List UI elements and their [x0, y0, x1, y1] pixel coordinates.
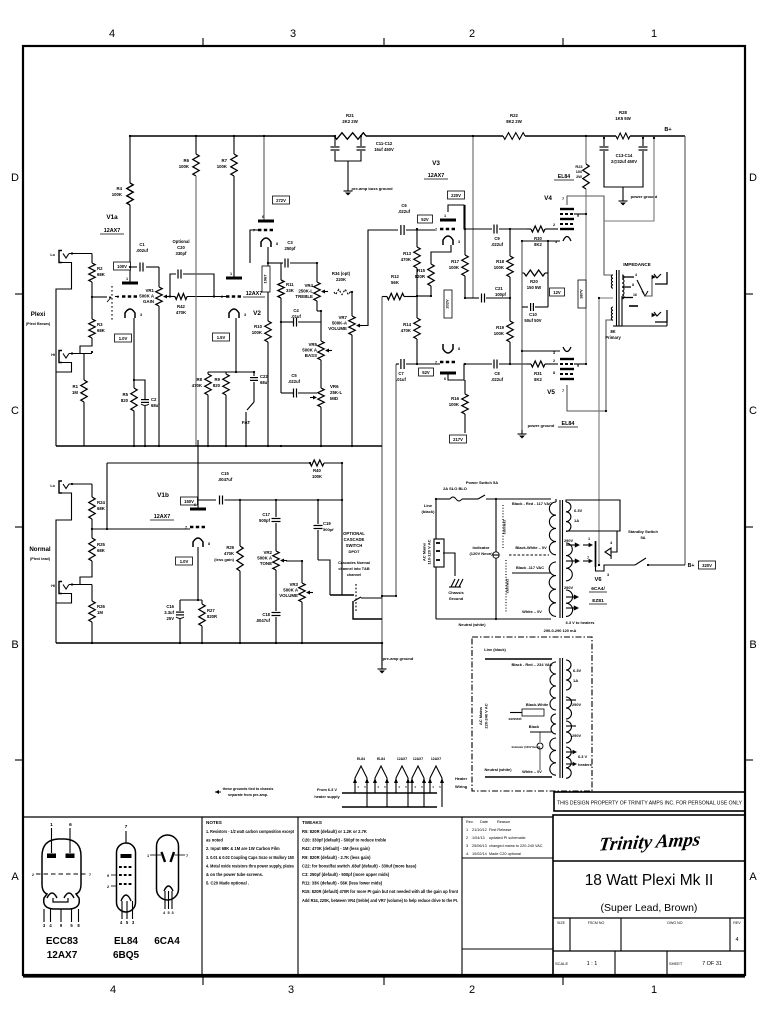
- wire 220 neutral: [485, 776, 552, 778]
- svg-text:.022uf: .022uf: [288, 379, 301, 384]
- wire R17 bottom to C21 node: [464, 276, 466, 298]
- resistor R30: [527, 228, 531, 230]
- svg-text:33K: 33K: [286, 288, 295, 293]
- svg-text:EZ81: EZ81: [592, 598, 604, 604]
- svg-text:7 OF 31: 7 OF 31: [702, 961, 722, 967]
- svg-text:Chassis: Chassis: [448, 590, 464, 595]
- wire C2 branch: [134, 380, 145, 399]
- label 202V box: [444, 290, 452, 318]
- svg-text:2. Input 68K & 1M are 1W Carbo: 2. Input 68K & 1M are 1W Carbon Film: [206, 846, 280, 851]
- svg-text:SWITCH: SWITCH: [346, 543, 363, 548]
- connect dotted line upper: [502, 505, 504, 548]
- resistor R12: [382, 296, 387, 298]
- svg-text:C6: C6: [401, 203, 407, 208]
- wire tone out drop A: [381, 297, 383, 666]
- svg-text:& on the power tube screens.: & on the power tube screens.: [206, 872, 263, 877]
- pre-amp buss ground symbol: [344, 187, 353, 196]
- svg-text:500K A: 500K A: [302, 348, 318, 353]
- svg-text:25K-L: 25K-L: [330, 390, 343, 395]
- svg-text:500pf: 500pf: [259, 518, 271, 523]
- svg-text:56K: 56K: [391, 280, 400, 285]
- divider tweaks-rev: [461, 817, 463, 975]
- pentode V4: [560, 209, 574, 241]
- svg-text:V5: V5: [547, 389, 555, 396]
- wire R18 bottom: [509, 277, 511, 298]
- input jack Normal Lo: [59, 481, 69, 493]
- transformer PT2 core: [559, 658, 561, 778]
- input jack Plexi Hi: [59, 351, 69, 363]
- svg-text:7: 7: [562, 389, 564, 393]
- transformer PT primary: [549, 502, 556, 555]
- wire C22 to FAT switch: [253, 382, 255, 402]
- tube base 6CA4 cathode: [164, 886, 173, 891]
- svg-text:272V: 272V: [276, 198, 286, 203]
- svg-text:6.3V: 6.3V: [573, 668, 582, 673]
- svg-text:820: 820: [121, 398, 129, 403]
- divider notes-tweaks: [297, 817, 299, 975]
- wire jack Lo tip: [69, 253, 92, 255]
- wire R5 to rail: [133, 411, 135, 446]
- svg-text:7: 7: [89, 873, 91, 877]
- svg-text:C3: C3: [287, 240, 293, 245]
- svg-text:1M: 1M: [97, 610, 103, 615]
- triode V2a: [221, 272, 246, 318]
- transformer PT2 HT winding: [566, 697, 572, 719]
- svg-text:7: 7: [587, 556, 589, 560]
- svg-text:2K2 2W: 2K2 2W: [342, 119, 358, 124]
- top border ticks: [202, 38, 204, 46]
- svg-text:1: 1: [50, 822, 53, 828]
- voltage box 1.0V V1a cathode: [115, 334, 132, 342]
- triode V2b cathode follower: [253, 215, 278, 247]
- svg-text:.002uf: .002uf: [136, 248, 149, 253]
- wire V1a cathode: [133, 318, 135, 388]
- wire R24 to R25: [91, 519, 93, 538]
- wire VR6 to rail: [320, 407, 322, 446]
- svg-text:3.3uf: 3.3uf: [164, 610, 174, 615]
- svg-text:Normal: Normal: [29, 546, 51, 553]
- capacitor C22: [253, 372, 255, 376]
- tube base EL84 grids: [119, 866, 133, 868]
- svg-text:From 6.3 V: From 6.3 V: [317, 787, 337, 792]
- svg-text:R17: R17: [451, 259, 459, 264]
- svg-text:Wiring: Wiring: [455, 784, 468, 789]
- transformer OT secondary winding: [622, 275, 624, 299]
- transformer PT2 primary: [550, 662, 556, 710]
- svg-text:Neutral (white): Neutral (white): [458, 622, 486, 627]
- wire VR3 top: [286, 561, 302, 566]
- svg-text:SHEET: SHEET: [669, 961, 683, 966]
- wire V5 pin9 screen: [574, 363, 586, 365]
- svg-text:R1: R1: [73, 384, 79, 389]
- svg-text:Lo: Lo: [50, 484, 55, 488]
- capacitor C10: [522, 306, 528, 308]
- svg-text:REV: REV: [733, 921, 741, 925]
- svg-text:290V: 290V: [572, 702, 581, 707]
- svg-text:heater supply: heater supply: [314, 794, 340, 799]
- wire V3a cathode to R15: [431, 245, 451, 264]
- svg-text:B: B: [749, 639, 756, 651]
- svg-text:R9: 820R (default) - 2.7K (les: R9: 820R (default) - 2.7K (less gain): [302, 855, 371, 860]
- svg-text:1: 1: [651, 984, 657, 996]
- wire R12 to PI node: [404, 296, 417, 298]
- indicator neon: [493, 552, 499, 558]
- svg-text:6CA4: 6CA4: [154, 936, 180, 947]
- svg-text:Indicator (120V Neon): Indicator (120V Neon): [512, 745, 541, 749]
- switch FAT: [247, 402, 254, 410]
- svg-text:R21: R21: [346, 113, 354, 118]
- wire rail drop to PI: [472, 136, 474, 298]
- svg-text:Black: Black: [529, 724, 540, 729]
- svg-text:.022uf: .022uf: [491, 242, 504, 247]
- svg-text:Add R34, 220K, between VR4 (t: Add R34, 220K, between VR4 (treble) and …: [302, 898, 458, 903]
- svg-text:V2: V2: [253, 310, 261, 317]
- potentiometer VR5 bass: [320, 311, 322, 341]
- resistor R40: [310, 460, 324, 466]
- svg-text:12AX7: 12AX7: [154, 514, 170, 520]
- svg-text:25V: 25V: [167, 616, 175, 621]
- svg-text:6: 6: [444, 377, 446, 381]
- wire V4 cathode: [522, 240, 560, 242]
- svg-text:1967: 1967: [262, 274, 267, 284]
- svg-text:100pf: 100pf: [495, 292, 507, 297]
- svg-text:TWEAKS: TWEAKS: [302, 820, 322, 825]
- svg-text:C2: C2: [151, 397, 157, 402]
- svg-text:C20: 330pf (default) - 500pf t: C20: 330pf (default) - 500pf to reduce t…: [302, 838, 387, 843]
- mains plug: [434, 539, 444, 567]
- svg-text:100K: 100K: [252, 330, 263, 335]
- rev area line 2: [462, 948, 553, 950]
- size row dividers: [569, 918, 571, 951]
- svg-text:2: 2: [469, 984, 475, 996]
- svg-text:820R: 820R: [415, 274, 426, 279]
- svg-text:R26: R26: [97, 604, 105, 609]
- wire OT secondary taps: [622, 276, 634, 278]
- transformer PT2 heater winding: [566, 747, 571, 778]
- switch standby: [635, 558, 646, 565]
- svg-text:12AX7: 12AX7: [428, 173, 444, 179]
- wire black-white dashed: [509, 554, 549, 556]
- svg-text:8: 8: [632, 283, 634, 287]
- svg-text:White – 0V: White – 0V: [522, 769, 542, 774]
- capacitor C21: [465, 297, 479, 299]
- svg-text:power ground: power ground: [528, 423, 555, 428]
- svg-text:.022uf: .022uf: [491, 377, 504, 382]
- svg-text:387V: 387V: [578, 289, 583, 299]
- svg-text:320V: 320V: [702, 563, 712, 568]
- svg-text:5. C20 Made optional .: 5. C20 Made optional .: [206, 881, 249, 886]
- svg-text:3: 3: [553, 351, 555, 355]
- resistor R23: [585, 136, 587, 164]
- voltage box 320V: [699, 561, 716, 569]
- wire VR7 bottom: [351, 335, 353, 446]
- resistor R3: [89, 319, 95, 338]
- svg-text:470K: 470K: [192, 383, 203, 388]
- power ground symbol V4V5: [518, 430, 527, 439]
- svg-text:.01uf: .01uf: [396, 377, 406, 382]
- transformer PT core: [559, 500, 561, 618]
- svg-text:6.3 V to heaters: 6.3 V to heaters: [566, 620, 595, 625]
- svg-text:VR3: VR3: [289, 582, 298, 587]
- svg-text:R28: R28: [619, 110, 627, 115]
- svg-text:White – 0V: White – 0V: [522, 609, 542, 614]
- voltage box 12V: [550, 288, 565, 296]
- wire R40 right: [324, 462, 342, 464]
- svg-text:EL84: EL84: [114, 936, 138, 947]
- tube base ECC83 top pins: [51, 828, 53, 853]
- svg-text:9: 9: [107, 874, 109, 878]
- capacitor C13: [603, 138, 605, 146]
- resistor R29: [239, 500, 241, 546]
- svg-text:R6: R6: [184, 158, 190, 163]
- svg-text:202V: 202V: [444, 299, 449, 309]
- svg-text:connect: connect: [509, 717, 523, 721]
- svg-text:Made C20 optional: Made C20 optional: [489, 852, 521, 856]
- capacitor C9: [493, 225, 495, 234]
- input jack Plexi Lo: [59, 251, 69, 263]
- svg-text:R7: R7: [222, 158, 228, 163]
- wire PT2 taps: [566, 699, 576, 701]
- svg-text:7: 7: [186, 854, 188, 858]
- svg-text:9: 9: [577, 214, 579, 218]
- potentiometer VR6 mid: [310, 388, 324, 407]
- svg-text:2: 2: [435, 228, 437, 232]
- TWEAKS text block: [302, 820, 459, 903]
- wire cathode split: [180, 599, 202, 601]
- svg-text:8K2: 8K2: [534, 242, 542, 247]
- wire black tap: [512, 572, 551, 574]
- resistor R18: [509, 229, 511, 256]
- svg-text:THIS DESIGN PROPERTY OF TRINIT: THIS DESIGN PROPERTY OF TRINITY AMPS INC…: [557, 801, 742, 807]
- svg-text:5: 5: [167, 911, 169, 915]
- svg-text:Black - Red - 117 VAC: Black - Red - 117 VAC: [512, 501, 552, 506]
- rectifier V6 bar: [595, 541, 597, 567]
- svg-text:VOLUME: VOLUME: [328, 326, 347, 331]
- wire Plexi Hi sleeve: [56, 363, 72, 373]
- svg-text:C11-C12: C11-C12: [376, 141, 393, 146]
- tube base ECC83 plates: [47, 854, 56, 859]
- input jack Normal Hi: [59, 582, 69, 594]
- svg-text:1.0V: 1.0V: [180, 559, 189, 564]
- svg-text:First Release: First Release: [489, 828, 511, 832]
- transformer OT core: [616, 270, 618, 326]
- svg-text:Lo: Lo: [50, 253, 55, 257]
- svg-text:EL84: EL84: [558, 174, 571, 180]
- svg-text:C: C: [749, 405, 757, 417]
- resistor R14: [416, 296, 418, 318]
- svg-text:B+: B+: [664, 127, 672, 133]
- wire mains bottom: [435, 567, 437, 619]
- svg-text:R13: R13: [403, 251, 411, 256]
- svg-text:V3: V3: [432, 160, 440, 167]
- svg-text:C15: C15: [221, 471, 229, 476]
- svg-text:V1a: V1a: [106, 214, 118, 221]
- svg-text:Plexi: Plexi: [31, 311, 46, 318]
- wire rail drop left: [106, 463, 108, 529]
- wire C13-C14 bottom box: [604, 151, 643, 187]
- svg-text:ECC83: ECC83: [46, 936, 79, 947]
- wire V1b cathode: [197, 547, 199, 600]
- wire VR1 bottom to ground rail: [158, 306, 160, 446]
- wire OT secondary return: [622, 296, 667, 326]
- wire V2b cathode out: [267, 247, 269, 321]
- Trinity Amps script logo: [598, 829, 702, 855]
- wire VR2 to C18: [275, 570, 277, 611]
- svg-text:2: 2: [553, 359, 555, 363]
- voltage box 1.0V V1b: [176, 557, 193, 565]
- svg-text:110-120 V AC: 110-120 V AC: [427, 539, 432, 564]
- svg-text:68K: 68K: [97, 328, 106, 333]
- wire preamp ground rail: [56, 445, 382, 447]
- wire C19 to volume node: [318, 560, 330, 595]
- svg-text:8K: 8K: [610, 329, 615, 334]
- svg-text:52V: 52V: [422, 370, 430, 375]
- svg-text:Cascades Normal: Cascades Normal: [338, 561, 370, 565]
- pre-amp ground symbol: [378, 665, 387, 674]
- transformer PT HT winding: [566, 543, 572, 581]
- svg-text:R29: R29: [226, 545, 234, 550]
- svg-text:heaters: heaters: [578, 762, 592, 767]
- wire VR5 to VR6: [320, 360, 322, 388]
- svg-text:C8: C8: [494, 371, 500, 376]
- wire R16 to 217V: [464, 414, 466, 433]
- wire mains top: [435, 499, 437, 539]
- switch cascade arm: [354, 597, 361, 601]
- svg-text:VR1: VR1: [145, 288, 154, 293]
- svg-text:Black -117 VAC: Black -117 VAC: [516, 565, 544, 570]
- resistor R13: [416, 229, 418, 247]
- wire HT tap upper arrow: [566, 544, 578, 546]
- resistor R6: [193, 154, 199, 176]
- wire grid feed V1a: [92, 296, 107, 298]
- svg-text:D: D: [11, 172, 19, 184]
- indicator neon 220: [537, 743, 543, 749]
- svg-text:VOLUME: VOLUME: [279, 593, 298, 598]
- wire R2 to R3: [91, 282, 93, 319]
- rectifier V6 plate 1: [583, 544, 591, 546]
- revision table text: [466, 820, 543, 856]
- wire R11 bottom: [280, 298, 282, 322]
- svg-text:50uf 50V: 50uf 50V: [524, 318, 541, 323]
- svg-text:470K: 470K: [224, 551, 234, 556]
- svg-text:DPDT: DPDT: [349, 549, 360, 554]
- resistor R34 optional: [334, 289, 350, 294]
- potentiometer VR1 500K-A GAIN: [139, 287, 170, 306]
- potentiometer VR7 volume: [328, 315, 363, 335]
- wire cascade to drop: [361, 597, 382, 599]
- svg-text:4.: 4.: [466, 852, 469, 856]
- svg-text:1: 1: [126, 277, 128, 281]
- speaker jack upper: [655, 272, 667, 284]
- svg-text:V6: V6: [594, 577, 602, 583]
- svg-text:290V: 290V: [572, 733, 581, 738]
- resistor R19: [509, 298, 511, 321]
- svg-text:3: 3: [466, 844, 468, 848]
- svg-text:290-0-290 120 mA: 290-0-290 120 mA: [544, 628, 577, 633]
- svg-text:2: 2: [107, 885, 109, 889]
- jack switch dashed line: [111, 286, 113, 322]
- svg-text:12AX7: 12AX7: [246, 291, 262, 297]
- wire 220 line: [485, 658, 552, 660]
- wire R10 to rail: [267, 342, 269, 446]
- svg-text:820: 820: [213, 383, 221, 388]
- svg-text:.01uf: .01uf: [291, 314, 301, 319]
- svg-text:changed mains to 220-240 VAC: changed mains to 220-240 VAC: [489, 844, 543, 848]
- capacitor C17: [275, 500, 277, 517]
- svg-text:R4: R4: [117, 186, 123, 191]
- resistor R25: [89, 538, 95, 561]
- svg-text:NOTES: NOTES: [206, 820, 222, 825]
- svg-text:R27: R27: [207, 608, 215, 613]
- svg-text:V1b: V1b: [157, 492, 169, 499]
- tube base EL84 bottom pins: [121, 901, 123, 919]
- svg-text:4: 4: [109, 28, 115, 40]
- heater symbol EL84 #2: [375, 766, 387, 807]
- svg-text:.0047uf: .0047uf: [218, 477, 233, 482]
- svg-text:220V: 220V: [451, 193, 461, 198]
- capacitor C2: [141, 399, 149, 401]
- svg-text:470K: 470K: [176, 310, 187, 315]
- svg-text:16: 16: [633, 293, 637, 297]
- fuse: [436, 498, 450, 500]
- potentiometer VR3 volume: [301, 566, 303, 583]
- voltage box 1.5V: [213, 333, 230, 341]
- svg-text:100K: 100K: [179, 164, 190, 169]
- svg-text:100V: 100V: [117, 264, 127, 269]
- wire B+ drop right side: [684, 136, 686, 565]
- svg-text:pre-amp ground: pre-amp ground: [383, 656, 414, 661]
- svg-text:8: 8: [208, 542, 210, 546]
- svg-text:C18: C18: [262, 612, 270, 617]
- svg-text:Heater: Heater: [455, 776, 468, 781]
- tube base ECC83 envelope: [42, 839, 81, 909]
- svg-text:R5: 820R (default) or 1.2K or: R5: 820R (default) or 1.2K or 2.7K: [302, 829, 367, 834]
- svg-text:100K: 100K: [449, 265, 460, 270]
- svg-text:A: A: [749, 871, 757, 883]
- speaker jack lower: [655, 310, 667, 322]
- switch impedance selector: [637, 280, 644, 294]
- capacitor C15: [219, 496, 221, 505]
- svg-text:52V: 52V: [421, 217, 429, 222]
- resistor R17: [464, 205, 466, 255]
- resistor R2: [89, 263, 95, 282]
- svg-text:R2: R2: [97, 266, 103, 271]
- capacitor C3: [284, 259, 286, 268]
- wire R7 to V2 plate: [233, 176, 235, 278]
- resistor R1: [81, 380, 87, 402]
- resistor R10: [265, 321, 271, 342]
- capacitor C11: [334, 136, 336, 146]
- wire V4 pin9 screen: [574, 213, 586, 215]
- rectifier V6 plate 7: [583, 560, 591, 562]
- chassis ground symbol: [449, 579, 463, 587]
- resistor R15: [428, 264, 434, 286]
- svg-text:updated PI schematic: updated PI schematic: [489, 836, 526, 840]
- label 1967 box: [262, 266, 270, 292]
- svg-text:100K: 100K: [449, 402, 460, 407]
- wire jack link: [666, 322, 668, 326]
- svg-text:12AX7: 12AX7: [47, 950, 78, 961]
- wire Plexi Lo sleeve: [56, 263, 72, 447]
- svg-text:10/02/14: 10/02/14: [472, 852, 487, 856]
- svg-text:220K: 220K: [336, 277, 346, 282]
- svg-text:AC Mains: AC Mains: [478, 706, 483, 725]
- svg-text:18 Watt Plexi Mk II: 18 Watt Plexi Mk II: [585, 872, 714, 889]
- switch cascade dashed: [355, 584, 357, 612]
- svg-text:C4: C4: [293, 308, 299, 313]
- wire R30 to V4 grid: [545, 228, 558, 230]
- svg-text:Primary: Primary: [605, 335, 621, 340]
